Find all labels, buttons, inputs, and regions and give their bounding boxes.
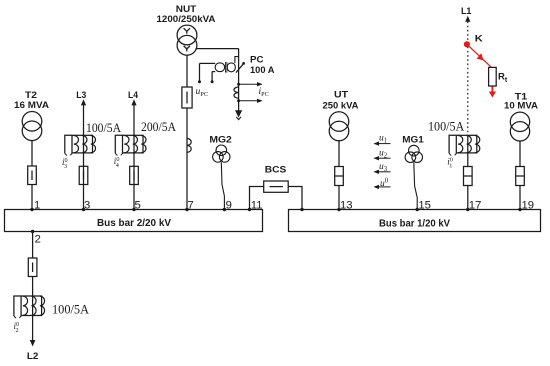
wire BCS to right bus — [288, 187, 302, 210]
fuse L3 — [79, 166, 88, 184]
label BCS — [265, 164, 287, 174]
wire L4 — [133, 105, 135, 210]
svg-text:iPC: iPC — [259, 87, 269, 98]
svg-text:u2: u2 — [379, 148, 388, 159]
svg-text:MG1: MG1 — [402, 134, 424, 144]
switch to PC — [235, 57, 245, 73]
petersen coil PC — [234, 87, 239, 98]
wire NUT to PC — [196, 49, 239, 111]
wire switch to node 9 — [223, 196, 225, 210]
current transformer CT L2 — [14, 296, 45, 318]
fuse L4 — [130, 166, 139, 184]
svg-text:L3: L3 — [76, 90, 86, 100]
svg-text:BCS: BCS — [265, 164, 287, 174]
bus bar 1/20 kV — [289, 210, 541, 232]
switch MG1 — [415, 186, 418, 198]
svg-text:9: 9 — [226, 200, 232, 212]
L2 feeder arrow — [30, 340, 36, 347]
label i2 0 — [14, 321, 20, 334]
node 5 — [132, 200, 140, 212]
wire node 2 down — [32, 232, 34, 259]
svg-text:17: 17 — [469, 200, 482, 212]
wire MG2 down — [220, 162, 223, 184]
label u2 — [379, 148, 388, 159]
svg-text:100 A: 100 A — [250, 65, 275, 75]
svg-text:i01: i01 — [447, 156, 453, 169]
label i1 0 — [447, 156, 453, 169]
wire L3 — [83, 105, 85, 210]
fuse L2 — [28, 258, 37, 277]
label MG1 — [402, 134, 424, 144]
label u0 — [380, 178, 389, 189]
svg-text:11: 11 — [251, 200, 263, 212]
fuse NUT — [182, 87, 192, 108]
label PC 100 A — [250, 55, 275, 76]
node 9 — [223, 200, 232, 212]
svg-text:L1: L1 — [461, 6, 472, 16]
node 3 — [82, 200, 90, 212]
svg-text:19: 19 — [522, 200, 535, 212]
wire MG1 down — [413, 163, 416, 187]
node 19 — [518, 200, 534, 212]
label 100/5A (L1) — [428, 118, 465, 133]
svg-text:i04: i04 — [114, 156, 120, 169]
ground PC — [235, 110, 242, 119]
junction right bus — [300, 208, 303, 211]
NUT wye symbol upper — [184, 28, 190, 34]
svg-text:16 MVA: 16 MVA — [14, 100, 49, 110]
node 1 — [30, 200, 40, 212]
iPC tap lower arrow — [237, 99, 262, 103]
transformer T2 — [22, 112, 42, 141]
machine MG2 — [213, 145, 230, 162]
svg-text:2: 2 — [35, 234, 41, 246]
label Rt — [498, 72, 508, 85]
wire VT terminal 1 — [198, 63, 215, 83]
label L4 — [128, 90, 139, 100]
wire fuse to CT L2 — [32, 277, 34, 297]
svg-text:100/5A: 100/5A — [86, 120, 122, 135]
fault arrow to ground — [489, 87, 496, 98]
L1 feeder arrow — [465, 16, 470, 22]
arrow u1 — [374, 141, 391, 145]
svg-text:15: 15 — [418, 200, 431, 212]
label 100/5A (L3) — [86, 120, 122, 135]
svg-text:Bus bar 1/20 kV: Bus bar 1/20 kV — [379, 219, 450, 230]
transformer T1 label — [504, 91, 538, 110]
breaker UT — [335, 167, 344, 186]
transformer UT label — [323, 90, 359, 111]
bus coupler switch BCS — [264, 181, 289, 192]
label iPC — [259, 87, 269, 98]
arrow u2 — [374, 156, 391, 160]
svg-text:5: 5 — [135, 200, 141, 212]
transformer NUT label — [157, 4, 217, 24]
svg-text:NUT: NUT — [176, 4, 197, 14]
svg-text:1200/250kVA: 1200/250kVA — [157, 14, 217, 24]
fault path to Rt — [467, 44, 491, 67]
label L2 — [27, 351, 39, 361]
bus bar 2/20 kV — [5, 210, 263, 232]
wire coil to node 7 — [186, 139, 188, 210]
label u3 — [379, 162, 388, 173]
NUT wye symbol lower — [184, 46, 190, 52]
current transformer CT L3 — [65, 135, 96, 155]
svg-text:K: K — [475, 34, 483, 44]
transformer NUT — [177, 25, 197, 55]
transformer T2 label — [14, 90, 49, 110]
transformer T1 — [510, 112, 529, 141]
svg-text:7: 7 — [188, 200, 194, 212]
arrow u0 — [374, 185, 391, 189]
wire fuse to coil — [186, 108, 188, 139]
arrow u3 — [374, 170, 391, 174]
wire T1 to fuse — [519, 141, 521, 167]
svg-text:Bus bar 2/20 kV: Bus bar 2/20 kV — [97, 218, 171, 229]
label u1 — [379, 134, 387, 145]
svg-text:1: 1 — [34, 200, 40, 212]
label i4 0 — [114, 156, 120, 169]
voltage transformer PC core — [226, 62, 227, 73]
fault point K — [464, 34, 483, 48]
svg-text:13: 13 — [340, 200, 353, 212]
dashed line L1 — [467, 22, 469, 136]
wire fuse to node 17 — [467, 186, 469, 210]
node 13 — [337, 200, 352, 212]
current transformer CT L1 — [449, 135, 480, 155]
fault current arrow — [477, 53, 484, 60]
svg-text:10 MVA: 10 MVA — [504, 100, 538, 110]
node 7 — [185, 200, 193, 212]
svg-text:uPC: uPC — [196, 87, 209, 98]
wire fuse to node 1 — [31, 185, 33, 210]
svg-text:250 kVA: 250 kVA — [323, 100, 359, 110]
wire switch to node 15 — [416, 198, 418, 210]
svg-text:u1: u1 — [379, 134, 387, 145]
svg-text:L4: L4 — [128, 90, 139, 100]
svg-text:200/5A: 200/5A — [141, 119, 177, 134]
wire T2 to fuse — [31, 141, 33, 167]
svg-text:Rt: Rt — [498, 72, 508, 85]
wire UT to fuse — [338, 141, 340, 167]
wire VT terminal 2 — [211, 72, 216, 84]
L4 feeder arrow — [131, 99, 136, 105]
svg-text:MG2: MG2 — [209, 134, 232, 144]
resistor Rt — [489, 67, 497, 86]
iPC tap upper arrow — [237, 82, 262, 86]
wire node 11 to BCS — [250, 187, 264, 210]
svg-text:T2: T2 — [25, 90, 37, 100]
svg-text:L2: L2 — [27, 351, 39, 361]
svg-text:100/5A: 100/5A — [428, 118, 465, 133]
node 15 — [416, 200, 431, 212]
svg-text:i03: i03 — [62, 157, 68, 170]
current transformer CT L4 — [115, 135, 146, 155]
label L1 — [461, 6, 472, 16]
switch MG2 — [222, 185, 224, 197]
node 11 — [248, 200, 263, 212]
label i3 0 — [62, 157, 68, 170]
label MG2 — [209, 134, 232, 144]
wire fuse to node 19 — [519, 186, 521, 210]
svg-text:100/5A: 100/5A — [52, 302, 90, 317]
wire NUT to fuse — [186, 55, 188, 87]
voltage transformer PC winding right — [227, 63, 235, 72]
svg-text:PC: PC — [250, 55, 264, 65]
breaker L1 — [464, 167, 473, 186]
breaker T1 — [516, 167, 525, 186]
svg-text:3: 3 — [84, 200, 90, 212]
label 200/5A (L4) — [141, 119, 177, 134]
node 17 — [466, 200, 481, 212]
L3 feeder arrow — [81, 99, 86, 105]
fuse T2 — [28, 166, 37, 185]
coil on NUT line — [187, 139, 191, 153]
svg-text:UT: UT — [334, 90, 348, 100]
voltage transformer PC winding left — [215, 63, 224, 72]
label uPC — [196, 87, 209, 98]
label 100/5A (L2) — [52, 302, 90, 317]
label L3 — [76, 90, 86, 100]
transformer UT — [329, 112, 349, 141]
svg-text:i02: i02 — [14, 321, 20, 334]
wire CT to fuse — [467, 153, 469, 167]
wire fuse to node 13 — [338, 186, 340, 210]
machine MG1 — [405, 145, 422, 162]
wire CT to L2 arrow — [32, 316, 34, 342]
node 2 — [31, 230, 41, 246]
